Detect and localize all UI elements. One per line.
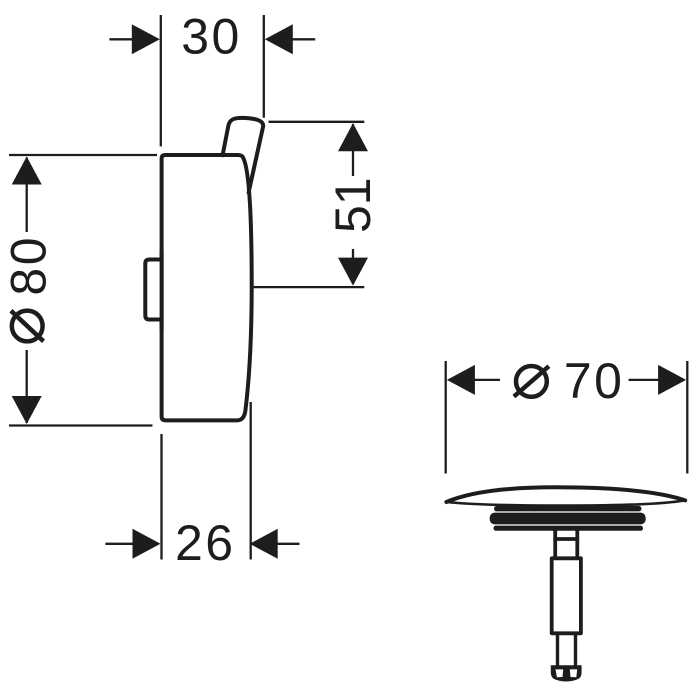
dim Ø80: diameter symbol slash bbox=[11, 311, 44, 342]
svg-text:30: 30 bbox=[181, 9, 242, 65]
dim Ø80: lower dimension line bbox=[26, 350, 28, 423]
overflow trim body (side view) bbox=[162, 155, 252, 420]
svg-text:80: 80 bbox=[0, 235, 56, 296]
dim 30: left leader line bbox=[109, 38, 133, 40]
plug foot bbox=[551, 665, 582, 681]
dim Ø70: diameter symbol slash bbox=[514, 366, 549, 396]
dim Ø70: left leader line bbox=[474, 379, 500, 381]
dim Ø80: top extension line bbox=[9, 154, 157, 156]
dim Ø70: right extension line bbox=[686, 361, 688, 474]
dim 30: right extension line bbox=[263, 15, 265, 118]
dim Ø70: right leader line bbox=[629, 379, 661, 381]
dim 51: bottom extension line bbox=[254, 286, 365, 288]
left pipe-stub tab bbox=[145, 260, 162, 320]
plug seal ring 3 bbox=[494, 526, 644, 531]
dim 30: left arrow bbox=[132, 24, 160, 54]
dim 51: lower dimension line bbox=[352, 249, 354, 284]
dim 26: left extension line bbox=[160, 434, 162, 560]
plug stem wide section bbox=[552, 558, 581, 633]
dim Ø80: upper dimension line bbox=[26, 158, 28, 233]
plug seal ring 1 bbox=[494, 506, 642, 512]
dim Ø70: left extension line bbox=[445, 361, 447, 474]
dim 51: upper dimension line bbox=[352, 124, 354, 176]
svg-text:70: 70 bbox=[564, 353, 625, 409]
dim Ø80: up arrow bbox=[12, 157, 42, 185]
plug neck right edge bbox=[575, 530, 579, 557]
plug neck left edge bbox=[553, 530, 557, 557]
dim 30: right arrow bbox=[265, 24, 293, 54]
body left edge redraw bbox=[160, 250, 164, 330]
dim Ø70: left arrow bbox=[447, 365, 475, 395]
svg-text:26: 26 bbox=[175, 515, 236, 571]
dim 51: top extension line bbox=[269, 121, 365, 123]
dim 30: right leader line bbox=[292, 38, 315, 40]
plug foot left window bbox=[556, 669, 564, 677]
plug lower stem right edge bbox=[574, 633, 577, 666]
dim 26: right leader line bbox=[277, 543, 300, 545]
dim Ø70: diameter symbol circle bbox=[516, 366, 547, 397]
dim Ø80: bottom extension line bbox=[9, 424, 153, 426]
plug lower stem left edge bbox=[556, 633, 559, 666]
flip lever bbox=[223, 118, 264, 193]
waste plug cap (lens fill) bbox=[447, 487, 687, 505]
dim 26: right extension line bbox=[250, 402, 252, 560]
dim 26: left arrow bbox=[133, 529, 161, 559]
plug seal ring 2 bbox=[490, 513, 646, 525]
dim 51: down arrow bbox=[338, 258, 368, 286]
dim 26: left leader line bbox=[105, 543, 133, 545]
plug foot right window bbox=[570, 669, 577, 677]
dim 26: right arrow bbox=[250, 529, 278, 559]
dim 30: left extension line bbox=[160, 15, 162, 146]
dim Ø80: down arrow bbox=[12, 396, 42, 424]
waste plug cap top arc bbox=[446, 487, 685, 502]
waste plug cap bottom edge bbox=[446, 500, 685, 505]
dim Ø80: diameter symbol circle bbox=[12, 311, 43, 342]
plug neck rung bbox=[553, 537, 579, 541]
dim Ø70: right arrow bbox=[658, 365, 686, 395]
dim 51: up arrow bbox=[338, 123, 368, 151]
svg-text:51: 51 bbox=[325, 177, 381, 233]
